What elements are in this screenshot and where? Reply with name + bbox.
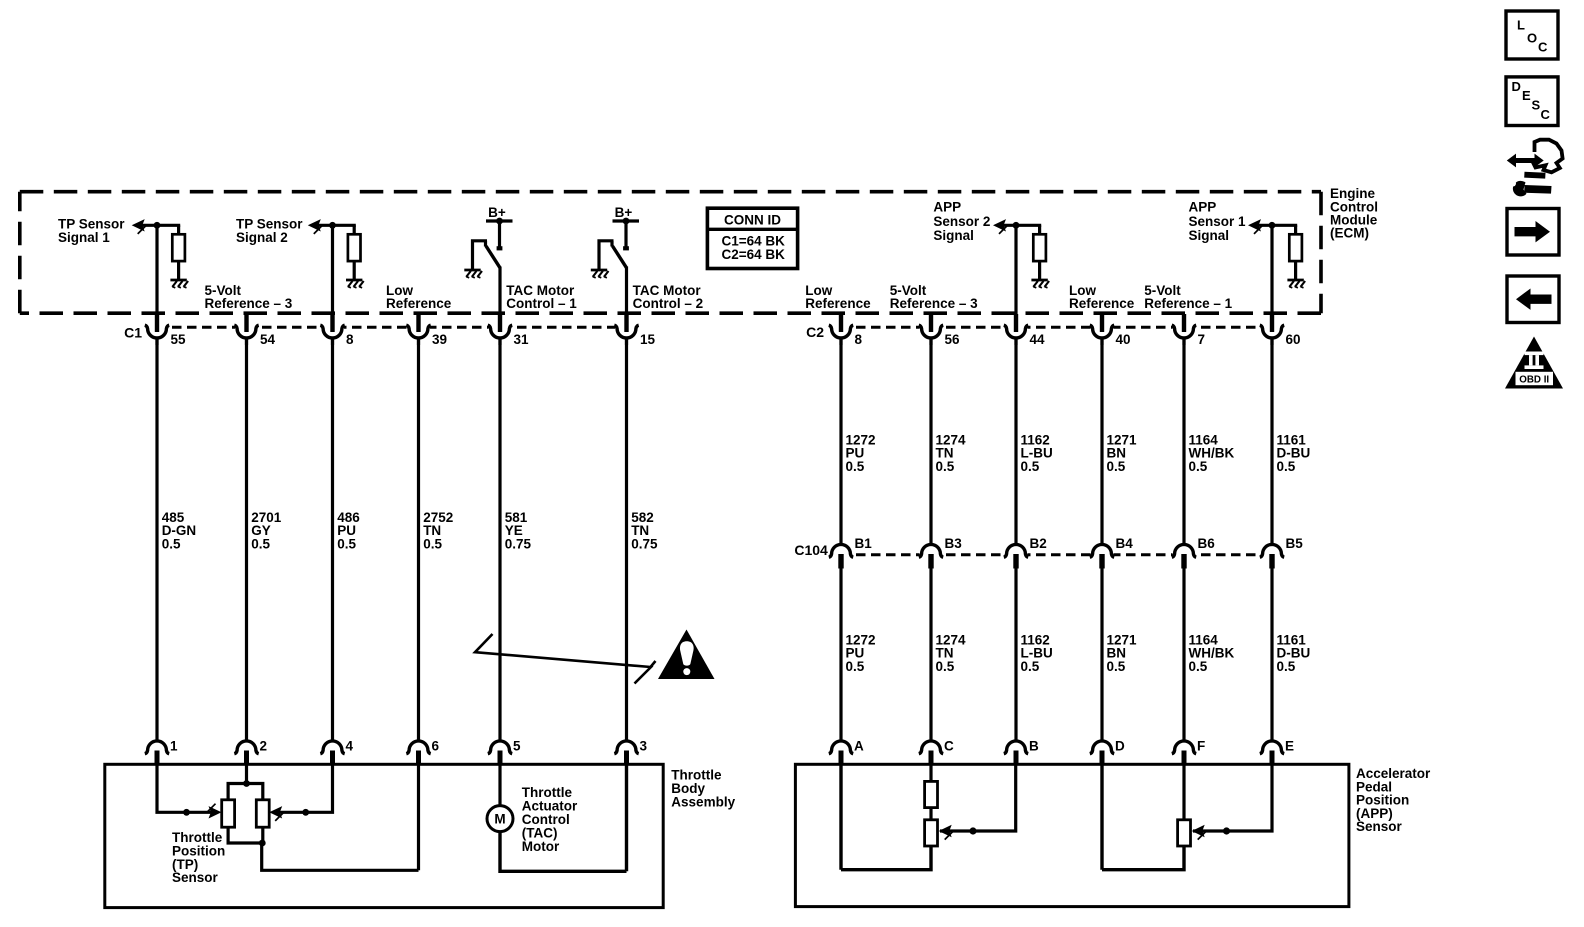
wire switch 2 to pin 15	[625, 267, 628, 317]
connector C2 pin 40	[1090, 314, 1131, 347]
svg-text:31: 31	[514, 332, 530, 347]
power B+ bar 2	[613, 219, 640, 222]
svg-text:A: A	[854, 738, 864, 753]
wire 1274 TN from C104 pin B3 to APP pin C	[929, 568, 932, 742]
wire 1161 D-BU from C104 pin B5 to APP pin E	[1270, 568, 1273, 742]
ground G3 (switch 1 arm)	[464, 270, 482, 278]
svg-text:C104: C104	[794, 542, 828, 558]
APP sensor connector pin D	[1090, 738, 1125, 765]
wire label 1164 WH/BK 0.5 (upper)	[1189, 432, 1235, 474]
wire R1 to ground	[177, 261, 180, 280]
wire pin 44 inside ECM	[1014, 225, 1017, 316]
svg-text:Control – 2: Control – 2	[633, 296, 704, 311]
net label TAC Motor Control - 1 (C1 pin 31)	[506, 283, 577, 311]
connector C2 pin 7	[1172, 314, 1205, 347]
wire to resistor R3	[1038, 225, 1041, 234]
wire label 485 D-GN 0.5	[162, 510, 197, 552]
wire APP pin F vertical	[1182, 762, 1185, 820]
APP sensor 1 resistive element	[1178, 820, 1191, 846]
svg-text:B1: B1	[855, 536, 873, 551]
svg-text:Reference – 1: Reference – 1	[1144, 296, 1232, 311]
ground G2	[346, 280, 364, 288]
svg-text:B5: B5	[1286, 536, 1304, 551]
connector C104 pin B3	[919, 536, 962, 569]
APP sensor connector pin E	[1260, 738, 1294, 765]
label Throttle Body Assembly	[671, 768, 735, 810]
net label Low Reference (C2 pin 8)	[805, 283, 871, 311]
svg-text:B3: B3	[945, 536, 963, 551]
svg-text:Signal: Signal	[933, 228, 974, 243]
wire 2752 TN from C1 pin 39 to TB pin 6	[417, 338, 420, 742]
wiper arrow marker (pin E)	[1223, 827, 1230, 834]
wire TAC motor to TB pin 3	[500, 832, 627, 872]
svg-text:Sensor 2: Sensor 2	[933, 214, 990, 229]
svg-text:Reference – 3: Reference – 3	[205, 296, 293, 311]
APP sensor connector pin F	[1172, 738, 1205, 765]
svg-text:60: 60	[1286, 332, 1301, 347]
svg-text:7: 7	[1198, 332, 1206, 347]
wiper arrow into APP sensor 1	[1192, 825, 1206, 840]
svg-text:0.5: 0.5	[936, 459, 955, 474]
APP sensor 2 resistive element lower	[925, 820, 938, 846]
svg-text:56: 56	[945, 332, 961, 347]
wiper arrow into APP sensor 2	[939, 825, 953, 840]
net label 5-Volt Reference - 3 (C2 pin 56)	[890, 283, 978, 311]
CONN ID table	[707, 208, 797, 268]
wire 485 D-GN from C1 pin 55 to TB pin 1	[155, 338, 158, 742]
wire B+ 2 to switch contact	[624, 221, 627, 248]
net label Low Reference (C2 pin 40)	[1069, 283, 1135, 311]
svg-text:C: C	[1541, 107, 1551, 122]
svg-text:0.5: 0.5	[1107, 659, 1126, 674]
wire 1164 WH/BK from C2 pin 7 to C104 pin B6	[1182, 338, 1185, 546]
wire TB pin 6 vertical	[417, 762, 420, 870]
wire 1271 BN from C2 pin 40 to C104 pin B4	[1100, 338, 1103, 546]
wire TP Sensor Signal 1 horizontal	[136, 224, 180, 227]
icon service wrench	[1507, 140, 1563, 197]
TP sensor resistive element 2	[256, 800, 269, 827]
APP sensor connector pin A	[829, 738, 864, 765]
resistor R4 (APP signal 1 pull-up)	[1289, 234, 1302, 261]
svg-text:Signal 2: Signal 2	[236, 230, 288, 245]
wire R2 to ground	[353, 261, 356, 280]
wire pin 8 inside ECM	[331, 225, 334, 316]
svg-text:C: C	[1538, 40, 1548, 55]
TP sensor resistive element 1	[222, 800, 235, 827]
svg-text:54: 54	[260, 332, 276, 347]
switch Q1 blade (TAC Motor Control 1)	[486, 246, 500, 268]
connector C104 pin B6	[1172, 536, 1215, 569]
net label TAC Motor Control - 2 (C1 pin 15)	[633, 283, 704, 311]
TP sensor top bar	[228, 784, 263, 801]
connector C1 pin 55	[145, 314, 186, 347]
svg-text:Control – 1: Control – 1	[506, 296, 577, 311]
svg-text:L: L	[1517, 18, 1525, 33]
label Throttle Position (TP) Sensor	[172, 830, 225, 885]
svg-text:B2: B2	[1030, 536, 1047, 551]
wire TB pin 4 to TP sensor wiper 2	[278, 762, 333, 812]
connector C104 pin B4	[1090, 536, 1133, 569]
APP sensor connector pin C	[919, 738, 954, 765]
wire APP pin D vertical	[1100, 762, 1103, 870]
svg-text:0.5: 0.5	[1277, 459, 1296, 474]
svg-text:0.5: 0.5	[1189, 459, 1208, 474]
label Accelerator Pedal Position (APP) Sensor	[1356, 766, 1431, 834]
switch Q2 blade (TAC Motor Control 2)	[613, 246, 627, 268]
svg-text:Reference: Reference	[386, 296, 452, 311]
wire label 1274 TN 0.5 (upper)	[936, 432, 967, 474]
svg-text:8: 8	[855, 332, 863, 347]
svg-text:44: 44	[1030, 332, 1046, 347]
wire label 1164 WH/BK 0.5 (lower)	[1189, 632, 1235, 674]
wire label 1274 TN 0.5 (lower)	[936, 632, 967, 674]
net label APP Sensor 2 Signal	[933, 200, 990, 243]
throttle body connector pin 2	[234, 738, 267, 765]
svg-text:CONN ID: CONN ID	[724, 213, 781, 228]
wire label 1272 PU 0.5 (upper)	[846, 432, 876, 474]
wire 1162 L-BU from C104 pin B2 to APP pin B	[1014, 568, 1017, 742]
svg-text:C1: C1	[124, 325, 142, 341]
signal arrow APP Sensor 2 Signal	[993, 219, 1007, 234]
svg-text:0.5: 0.5	[162, 536, 181, 551]
junction B+ 2	[623, 218, 630, 225]
wire label 581 YE 0.75	[505, 510, 532, 552]
svg-text:0.75: 0.75	[631, 536, 658, 551]
svg-text:0.5: 0.5	[423, 536, 442, 551]
svg-text:M: M	[494, 812, 505, 827]
wire TP Sensor Signal 2 horizontal	[312, 224, 356, 227]
wire label 1271 BN 0.5 (lower)	[1107, 632, 1138, 674]
svg-text:E: E	[1285, 738, 1294, 753]
connector C104 pin B2	[1004, 536, 1047, 569]
icon arrow left	[1507, 276, 1559, 323]
wire label 2752 TN 0.5	[423, 510, 453, 552]
wire 1162 L-BU from C2 pin 44 to C104 pin B2	[1014, 338, 1017, 546]
svg-text:0.5: 0.5	[846, 659, 865, 674]
svg-text:8: 8	[346, 332, 354, 347]
net label TP Sensor Signal 1	[58, 217, 125, 246]
label Engine Control Module (ECM)	[1330, 186, 1378, 241]
wiper arrow marker (pin 4)	[302, 809, 309, 816]
svg-text:5: 5	[513, 738, 521, 753]
wire to resistor R4	[1294, 225, 1297, 234]
wire TB pin 5 to TAC motor	[498, 762, 501, 806]
connector C1 pin 8	[320, 314, 354, 347]
svg-text:C: C	[944, 738, 954, 753]
wiper arrow into TP sensor element 2	[269, 806, 283, 821]
net label 5-Volt Reference - 1 (C2 pin 7)	[1144, 283, 1232, 311]
wire switch 1 to pin 31	[498, 267, 501, 317]
resistor R3 (APP signal 2 pull-up)	[1033, 234, 1046, 261]
wire 486 PU from C1 pin 8 to TB pin 4	[331, 338, 334, 742]
svg-text:0.5: 0.5	[1189, 659, 1208, 674]
svg-text:Assembly: Assembly	[671, 795, 735, 810]
wiper arrow into TP sensor element 1	[208, 804, 222, 819]
svg-text:C2=64 BK: C2=64 BK	[722, 247, 786, 262]
wire 2701 GY from C1 pin 54 to TB pin 2	[245, 338, 248, 742]
connector C2 pin 44	[1004, 314, 1045, 347]
signal arrow TP Sensor Signal 2	[308, 219, 322, 234]
svg-text:2: 2	[260, 738, 268, 753]
wire to resistor R2	[353, 225, 356, 234]
wire R3 to ground	[1038, 261, 1041, 280]
wire B+ 1 to switch contact	[498, 221, 501, 248]
svg-text:APP: APP	[933, 200, 961, 215]
junction APP Sensor 2 Signal / pin 44	[1013, 222, 1020, 229]
svg-text:15: 15	[640, 332, 656, 347]
wire 1272 PU from C2 pin 8 to C104 pin B1	[839, 338, 842, 546]
svg-text:D: D	[1115, 738, 1125, 753]
junction TP Sensor Signal 1 / pin 55	[154, 222, 161, 229]
svg-text:6: 6	[432, 738, 440, 753]
throttle body connector pin 1	[145, 738, 178, 765]
wire APP pin A vertical	[839, 762, 842, 870]
ground G4 (switch 2 arm)	[591, 270, 609, 278]
power B+ bar 1	[486, 219, 513, 222]
svg-text:B6: B6	[1198, 536, 1216, 551]
junction APP Sensor 1 Signal / pin 60	[1269, 222, 1276, 229]
svg-text:0.5: 0.5	[936, 659, 955, 674]
svg-text:Sensor: Sensor	[1356, 819, 1403, 834]
wire pin 55 inside ECM	[155, 225, 158, 316]
connector C1 pin 39	[406, 314, 447, 347]
svg-text:Reference: Reference	[1069, 296, 1135, 311]
signal arrow TP Sensor Signal 1	[132, 219, 146, 234]
svg-text:F: F	[1197, 738, 1205, 753]
connector C1 pin 15	[614, 314, 655, 347]
TP sensor bottom bar	[228, 826, 263, 843]
svg-text:Signal: Signal	[1189, 228, 1230, 243]
wire pin 60 inside ECM	[1270, 225, 1273, 316]
wire 1161 D-BU from C2 pin 60 to C104 pin B5	[1270, 338, 1273, 546]
svg-text:O: O	[1527, 30, 1537, 45]
wire TB pin 1 to TP sensor wiper	[157, 762, 212, 812]
junction TP Sensor Signal 2 / pin 8	[329, 222, 336, 229]
APP sensor connector pin B	[1004, 738, 1039, 765]
connector C1 dashed line	[157, 326, 627, 329]
wire TB pin 3 vertical	[625, 762, 628, 871]
throttle body connector pin 5	[488, 738, 521, 765]
net label 5-Volt Reference - 3 (C1 pin 54)	[205, 283, 293, 311]
svg-text:Reference – 3: Reference – 3	[890, 296, 978, 311]
icon OBD II	[1505, 337, 1563, 389]
connector C2 dashed line	[841, 326, 1272, 329]
wire label 486 PU 0.5	[337, 510, 360, 552]
svg-text:0.5: 0.5	[1277, 659, 1296, 674]
net label TP Sensor Signal 2	[236, 217, 303, 246]
svg-text:E: E	[1522, 88, 1531, 103]
wire APP Sensor 2 Signal horizontal	[997, 224, 1041, 227]
svg-text:1: 1	[170, 738, 178, 753]
net label APP Sensor 1 Signal	[1189, 200, 1247, 243]
ECM module boundary (dashed box)	[20, 192, 1321, 314]
wire to resistor R1	[177, 225, 180, 234]
svg-text:0.5: 0.5	[1107, 459, 1126, 474]
wire label 1161 D-BU 0.5 (lower)	[1277, 632, 1311, 674]
connector C104 dashed line	[841, 553, 1272, 556]
ground G6	[1287, 280, 1305, 288]
svg-text:D: D	[1512, 79, 1521, 94]
wire 581 YE from C1 pin 31 to TB pin 5	[498, 338, 501, 742]
svg-text:B+: B+	[488, 205, 506, 220]
wire APP Sensor 1 Signal horizontal	[1252, 224, 1297, 227]
svg-text:0.5: 0.5	[337, 536, 356, 551]
svg-text:C2: C2	[806, 324, 824, 340]
svg-text:APP: APP	[1189, 200, 1217, 215]
wire 1274 TN from C2 pin 56 to C104 pin B3	[929, 338, 932, 546]
ground G1	[170, 280, 188, 288]
wire 1164 WH/BK from C104 pin B6 to APP pin F	[1182, 568, 1185, 742]
wire label 582 TN 0.75	[631, 510, 658, 552]
label Throttle Actuator Control (TAC) Motor	[522, 785, 578, 854]
icon arrow right	[1507, 209, 1559, 256]
svg-text:B: B	[1029, 738, 1039, 753]
wire label 1162 L-BU 0.5 (lower)	[1021, 632, 1053, 674]
accelerator pedal position sensor enclosure	[795, 764, 1349, 906]
junction B+ 1	[496, 218, 503, 225]
wire APP pin C vertical	[929, 762, 932, 782]
signal arrow APP Sensor 1 Signal	[1248, 219, 1262, 234]
icon LOC	[1506, 11, 1558, 59]
connector C2 pin 60	[1260, 314, 1301, 347]
junction TP sensor bottom	[259, 840, 266, 847]
connector C104 pin B5	[1260, 536, 1303, 569]
wire APP pin E to wiper	[1193, 762, 1272, 831]
resistor R1 (TP signal 1 pull-up)	[172, 234, 185, 261]
wire switch 1 ground arm	[473, 241, 488, 270]
svg-text:3: 3	[640, 738, 648, 753]
ground G5	[1031, 280, 1049, 288]
wire TB pin 2 to TP sensor top	[245, 762, 248, 785]
throttle body assembly enclosure	[105, 764, 663, 907]
wire 1271 BN from C104 pin B4 to APP pin D	[1100, 568, 1103, 742]
svg-text:OBD II: OBD II	[1519, 374, 1549, 385]
wire label 2701 GY 0.5	[251, 510, 282, 552]
wire switch 2 ground arm	[599, 241, 614, 270]
APP sensor 2 resistive element upper	[925, 781, 938, 807]
throttle body connector pin 6	[406, 738, 439, 765]
svg-text:4: 4	[346, 738, 354, 753]
connector C2 pin 8	[829, 314, 863, 347]
net label Low Reference (C1 pin 39)	[386, 283, 452, 311]
wiper arrow marker (pin B)	[969, 827, 976, 834]
svg-text:55: 55	[171, 332, 187, 347]
svg-text:B4: B4	[1116, 536, 1134, 551]
TAC motor M (motor symbol)	[487, 806, 513, 832]
wire TP sensor bottom to TB pin 6	[262, 843, 419, 870]
svg-text:0.5: 0.5	[251, 536, 270, 551]
connector C104 pin B1	[829, 536, 872, 569]
throttle body connector pin 3	[614, 738, 647, 765]
connector C1 pin 54	[234, 314, 275, 347]
wire APP pin B to wiper	[940, 762, 1016, 831]
svg-text:Sensor 1: Sensor 1	[1189, 214, 1247, 229]
svg-text:B+: B+	[615, 205, 633, 220]
wiper arrow marker (pin 1)	[183, 809, 190, 816]
svg-text:39: 39	[432, 332, 447, 347]
svg-text:40: 40	[1116, 332, 1131, 347]
throttle body connector pin 4	[320, 738, 353, 765]
icon DESC	[1506, 77, 1558, 126]
svg-text:Reference: Reference	[805, 296, 871, 311]
leader arrow to caution note	[475, 634, 656, 684]
svg-text:0.5: 0.5	[846, 459, 865, 474]
wire R4 to ground	[1294, 261, 1297, 280]
svg-text:Signal 1: Signal 1	[58, 230, 110, 245]
wire between APP sensor 2 elements	[929, 807, 932, 820]
connector C2 pin 56	[919, 314, 960, 347]
svg-text:0.5: 0.5	[1021, 659, 1040, 674]
wire label 1272 PU 0.5 (lower)	[846, 632, 876, 674]
caution triangle with exclamation	[658, 630, 715, 680]
resistor R2 (TP signal 2 pull-up)	[348, 234, 361, 261]
junction TP sensor top / pin 2	[243, 780, 250, 787]
svg-text:Motor: Motor	[522, 839, 560, 854]
wire 1272 PU from C104 pin B1 to APP pin A	[839, 568, 842, 742]
svg-text:0.75: 0.75	[505, 536, 532, 551]
wire label 1162 L-BU 0.5 (upper)	[1021, 432, 1053, 474]
wire APP sensor 1 bottom	[1102, 846, 1184, 870]
svg-text:S: S	[1532, 97, 1541, 112]
svg-text:Sensor: Sensor	[172, 870, 219, 885]
wire label 1161 D-BU 0.5 (upper)	[1277, 432, 1311, 474]
svg-text:0.5: 0.5	[1021, 459, 1040, 474]
svg-text:(ECM): (ECM)	[1330, 226, 1369, 241]
wire APP sensor 2 bottom	[841, 846, 931, 870]
wire 582 TN from C1 pin 15 to TB pin 3	[625, 338, 628, 742]
wire label 1271 BN 0.5 (upper)	[1107, 432, 1138, 474]
connector C1 pin 31	[488, 314, 529, 347]
